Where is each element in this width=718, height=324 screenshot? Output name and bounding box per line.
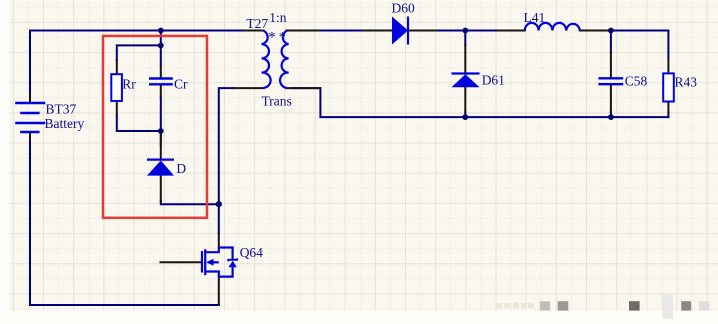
- wire snubber drop from node A: [160, 31, 162, 46]
- svg-text:D60: D60: [392, 1, 415, 16]
- node C58 ground junction: [608, 114, 614, 120]
- capacitor Cr: [149, 79, 173, 85]
- svg-text:*: *: [279, 29, 286, 45]
- watermark square 1: [540, 301, 550, 310]
- svg-text:Q64: Q64: [240, 245, 263, 260]
- svg-text:D61: D61: [482, 73, 505, 88]
- wire snubber top branch: [117, 45, 161, 60]
- pin transformer primary bottom: [234, 87, 264, 89]
- svg-text:*: *: [268, 29, 275, 45]
- svg-text:R43: R43: [675, 75, 698, 90]
- drain stub: [205, 248, 219, 253]
- pin Rr bottom: [116, 102, 118, 115]
- wire secondary top: [320, 30, 364, 32]
- wire Cr upper lead: [160, 45, 162, 66]
- body diode: [228, 258, 237, 261]
- node snubber bottom junction: [158, 128, 164, 134]
- pin D61 cathode: [464, 45, 466, 74]
- source stub: [205, 272, 219, 277]
- body stub with arrow: [213, 261, 219, 263]
- pin transformer primary top: [244, 30, 264, 32]
- wire primary bottom to drain: [219, 88, 234, 233]
- transformer T27 primary winding: [262, 31, 271, 88]
- svg-text:Trans: Trans: [262, 93, 292, 108]
- transformer T27 secondary winding: [280, 31, 289, 88]
- watermark light column: [662, 293, 673, 319]
- svg-text:Battery: Battery: [45, 116, 85, 131]
- pin Q64 drain lead: [218, 233, 220, 248]
- svg-text:L41: L41: [524, 10, 546, 25]
- svg-text:BT37: BT37: [46, 102, 77, 117]
- pin D cathode: [160, 131, 162, 159]
- svg-text:1:n: 1:n: [269, 10, 287, 25]
- wire Rr bottom branch: [117, 115, 161, 131]
- body diode branch: [219, 248, 233, 260]
- diode D60: [392, 17, 408, 45]
- pin battery bottom: [29, 132, 31, 140]
- pin C58 bottom: [610, 85, 612, 112]
- pin D60 anode: [364, 30, 392, 32]
- pin transformer secondary bottom: [287, 87, 321, 89]
- svg-text:T27: T27: [246, 16, 268, 31]
- wire Cr lower lead: [160, 97, 162, 131]
- wire node B to diode D: [160, 131, 162, 146]
- wire C58 upper lead: [610, 31, 612, 53]
- watermark square 4: [681, 301, 691, 310]
- inductor L41: [525, 23, 580, 31]
- node drain junction: [216, 201, 222, 207]
- pin R43 top: [667, 59, 669, 73]
- wire D60 cathode to node C: [436, 30, 497, 32]
- svg-text:C58: C58: [625, 74, 648, 89]
- channel bar: [204, 249, 206, 275]
- wire secondary bottom to output ground: [292, 88, 668, 117]
- pin battery top: [29, 95, 31, 102]
- pin R43 bottom: [667, 102, 669, 113]
- wire top-left rail: [30, 30, 244, 32]
- watermark square 3: [629, 301, 640, 310]
- wire left rail (battery branch): [29, 31, 31, 96]
- pin Rr top: [116, 60, 118, 75]
- watermark square 2: [558, 301, 569, 310]
- pin D anode: [160, 176, 162, 202]
- node D61 ground junction: [462, 114, 468, 120]
- gate bar: [201, 251, 203, 273]
- wire bottom rail: [30, 304, 219, 306]
- wire L41 to node D: [608, 31, 668, 60]
- pin L41 left: [497, 30, 525, 32]
- red highlight box: [103, 36, 207, 218]
- pin D61 anode: [464, 87, 466, 112]
- svg-text:Rr: Rr: [122, 77, 136, 92]
- resistor Rr: [111, 74, 122, 101]
- pin Cr top: [160, 66, 162, 78]
- transistor Q64: [202, 248, 237, 277]
- watermark square 5: [699, 301, 710, 310]
- svg-text:D: D: [176, 161, 186, 176]
- capacitor C58: [598, 78, 623, 84]
- node snubber top junction: [158, 43, 164, 49]
- pin transformer secondary top: [287, 30, 321, 32]
- svg-text:Cr: Cr: [174, 77, 188, 92]
- wire R43 bottom lead: [667, 112, 669, 117]
- node D junction (L41/C58): [608, 28, 614, 34]
- wire battery bottom to ground rail: [29, 140, 31, 305]
- watermark faint text: [496, 303, 502, 308]
- wire node C down to D61: [464, 31, 466, 46]
- resistor R43: [663, 73, 674, 101]
- battery BT37: [15, 103, 45, 132]
- diode D61: [452, 74, 480, 88]
- pin L41 right: [580, 30, 608, 32]
- wire diode D anode to drain node: [161, 201, 219, 204]
- node C junction (D60/D61/L41): [462, 28, 468, 34]
- pin D60 cathode: [408, 30, 436, 32]
- wire D61 anode to ground rail: [464, 112, 466, 117]
- pin Cr bottom: [160, 85, 162, 97]
- pin Q64 source lead: [218, 277, 220, 305]
- pin Q64 gate lead: [161, 261, 202, 263]
- pin C58 top: [610, 52, 612, 78]
- wire C58 lower lead: [610, 112, 612, 117]
- diode D: [147, 160, 174, 176]
- node A junction: [158, 28, 164, 34]
